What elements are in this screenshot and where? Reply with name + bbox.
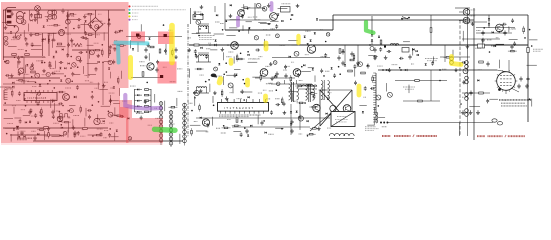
capacitor CsL104 [112, 60, 115, 65]
transistor QsL99 [72, 63, 76, 67]
diode DsL163 [53, 100, 55, 102]
wire v x445 [444, 45, 446, 62]
transistor QsC222 [194, 90, 199, 95]
resistor RsL222 [37, 129, 46, 131]
node nsC90 [226, 71, 228, 73]
node nsC30 [199, 28, 201, 30]
text label tsB20 [491, 45, 494, 47]
wire [10, 134, 12, 142]
resistor RsM29 [168, 106, 177, 108]
connector pin 8 colB [169, 142, 173, 146]
wire [120, 71, 122, 79]
wire [354, 67, 356, 76]
wire v x68 left [67, 10, 69, 57]
text label tsC178 [206, 131, 209, 133]
capacitor CsL95 [48, 61, 51, 66]
diode DsC27 [282, 20, 284, 22]
node nsC60 [325, 41, 327, 43]
text ladder label [136, 112, 144, 114]
resistor R3 zigzag [73, 44, 82, 47]
text label tsM14 [140, 65, 145, 67]
text label tsM5 [188, 37, 191, 39]
node nsL102 [102, 62, 104, 64]
capacitor CsL0 [11, 12, 14, 17]
ground G4 [20, 131, 24, 135]
wire [214, 6, 216, 12]
node nsC152 [317, 111, 319, 113]
highlight yellow Y6 [245, 80, 250, 85]
transistor QsC46 [276, 34, 280, 38]
capacitor CsL128 [71, 72, 74, 77]
text label tsB12 [487, 39, 492, 41]
diode DsC162 [307, 120, 309, 122]
resistor RsC173 [310, 128, 319, 129]
transistor QsC18 [196, 20, 201, 25]
resistor R15 on bus [194, 44, 199, 46]
transistor QsC5 [256, 3, 261, 8]
ground G11 [481, 38, 485, 42]
wire [242, 25, 244, 31]
diode DsL138 [60, 80, 62, 82]
capacitor CsC217 [333, 73, 336, 78]
capacitor CsL32 [89, 24, 92, 29]
inductor L1 [390, 44, 398, 45]
diode DsB26 [477, 79, 479, 81]
capacitor CsC96 [320, 69, 323, 74]
transistor Q19 [496, 24, 504, 32]
wire plug lead [15, 26, 18, 37]
wire bottom border left [33, 140, 183, 142]
node nsC4 [247, 8, 249, 10]
wire [229, 27, 237, 29]
transistor QsC112 [228, 83, 233, 88]
diode DsC135 [248, 96, 250, 98]
text label tsM33 [148, 124, 152, 126]
node nsL22 [109, 19, 111, 21]
connector pin 4 colB [169, 124, 173, 128]
wire y122 long [388, 122, 493, 124]
transistor QsA29 [376, 95, 381, 100]
text label tsC76 [259, 56, 263, 58]
diode DsC77 [289, 56, 291, 58]
text label tsL42 [67, 33, 71, 35]
diode DsL15 [46, 20, 48, 22]
wire [112, 44, 121, 46]
node nsM1 [163, 24, 165, 26]
resistor R8 [83, 128, 88, 130]
wire [529, 39, 537, 41]
highlight pink edge low [120, 107, 129, 143]
ground GsC20 [195, 54, 199, 58]
transistor Q4 [57, 116, 63, 122]
node nsC27 [301, 66, 303, 68]
transistor QsL78 [90, 50, 95, 55]
node nsL112 [70, 67, 72, 69]
capacitor CsB3 [511, 19, 514, 24]
diode DsC62 [200, 47, 202, 49]
text label tsB0 [467, 22, 470, 24]
diode D16 bus [386, 69, 388, 71]
wire v x431 low [430, 70, 432, 101]
capacitor CsL205 [120, 115, 125, 118]
diode DsL145 [12, 86, 14, 88]
capacitor CsA26 [370, 87, 375, 90]
resistor R30 [350, 59, 354, 61]
text label tsM34 [170, 123, 175, 125]
wire [257, 115, 259, 124]
transformer T6b [321, 80, 329, 100]
wire ladder left rail [134, 89, 136, 112]
diode DsL19 [85, 20, 87, 22]
text label tsC108 [299, 79, 303, 81]
capacitor C2 [66, 14, 69, 19]
connector pin 6 colC [183, 126, 187, 130]
transistor Q7 [202, 119, 209, 126]
node nsB7 [499, 31, 501, 33]
node nsL226 [47, 83, 49, 85]
text label tsC126 [269, 90, 273, 92]
resistor RsL79 [93, 49, 102, 51]
wire y27 r [476, 27, 515, 29]
optocoupler text CNY17 [5, 88, 13, 91]
wire [71, 39, 73, 47]
capacitor CsC70 [205, 54, 208, 59]
capacitor CsA23 [354, 81, 357, 86]
relay RL1 box [281, 4, 291, 12]
wire [28, 24, 30, 32]
node nsLb4 [59, 135, 61, 137]
diode DsC51 [215, 40, 217, 42]
legend cyan text [132, 9, 186, 11]
wire [214, 33, 224, 35]
diode DsC87 [303, 64, 305, 66]
text label tsC124 [258, 92, 263, 94]
node nsL231 [6, 133, 8, 135]
diode DsAb0 [342, 50, 344, 52]
resistor RsL213 [62, 121, 71, 123]
text label tsC36 [271, 28, 275, 30]
ground GsM7 [146, 43, 150, 47]
text label tsB24 [478, 69, 482, 71]
wire [433, 56, 435, 63]
text label tsL120 [24, 73, 29, 75]
resistor RsL187 [80, 105, 82, 113]
transistor Q17 [463, 9, 470, 16]
resistor RsC167 [222, 127, 231, 128]
wire v x24 left [23, 57, 25, 84]
ground G14 [461, 110, 465, 114]
text label tsC211 [216, 75, 222, 77]
ground GsL118 [10, 74, 14, 78]
node nsL88 [70, 56, 72, 58]
resistor RsC231 [297, 102, 306, 104]
wire [164, 101, 166, 111]
wire v x190 top [190, 8, 192, 24]
capacitor CsC216 [297, 73, 300, 78]
wire [25, 65, 27, 74]
text label tsL34 [7, 32, 13, 34]
capacitor CsL117 [5, 74, 10, 77]
wire [291, 93, 293, 102]
highlight patch A [131, 32, 145, 43]
node nsAb19 [399, 67, 401, 69]
capacitor CsB22 [513, 42, 516, 47]
text label tsC97 [325, 70, 329, 72]
capacitor CsL189 [87, 109, 92, 112]
node nsL72 [25, 50, 27, 52]
text label tsC55 [280, 44, 285, 46]
resistor R23 box [478, 44, 485, 48]
node nsAb16 [367, 65, 369, 67]
text block t3 [199, 36, 215, 40]
wire [84, 118, 86, 127]
wire [247, 61, 257, 63]
ground GsL14 [33, 17, 37, 21]
diode DsL133 [12, 82, 14, 84]
resistor RsL235 [48, 131, 50, 139]
text full bridge [499, 100, 531, 106]
text label tsL40 [48, 34, 53, 36]
node nsC93 [297, 70, 299, 72]
capacitor CsL61 [25, 42, 28, 47]
component in patch C [160, 75, 163, 78]
text label tsC133 [237, 98, 242, 100]
capacitor CsM8 [164, 49, 167, 54]
text label tsC50 [208, 42, 211, 44]
wire [509, 38, 518, 40]
diode DsC170 [250, 125, 252, 127]
resistor RsC88 [195, 68, 204, 70]
wire [243, 4, 245, 12]
transformer T8 vert [376, 112, 378, 123]
connector pin 4 colA [159, 116, 163, 120]
capacitor CsL170 [37, 101, 40, 106]
wire [88, 50, 90, 59]
transformer T6 top row [299, 85, 317, 89]
ground GsL216 [96, 54, 100, 58]
legend red text [132, 5, 158, 7]
capacitor C19 [144, 48, 147, 53]
node nsL184 [59, 111, 61, 113]
resistor R6 [31, 71, 36, 73]
wire h y57 [3, 56, 45, 58]
diode DsC58 [307, 43, 309, 45]
capacitor CsB27 [486, 99, 489, 104]
text label tsL22 [71, 15, 74, 17]
wire [114, 107, 116, 116]
wire [8, 45, 17, 47]
capacitor C14 [481, 31, 484, 36]
diode DsC34 [248, 27, 250, 29]
connector pin 6 colB [169, 133, 173, 137]
wire [189, 69, 191, 78]
wire [373, 107, 375, 114]
zener D3 [41, 61, 43, 63]
wire [270, 20, 279, 22]
connector pin 7 colA [159, 129, 163, 133]
node nsL190 [108, 111, 110, 113]
wire [53, 73, 64, 75]
highlight yellow Y5 [296, 36, 300, 43]
text label tsL180 [21, 109, 25, 111]
wire v x291 low [290, 104, 292, 135]
ground G8 [290, 129, 294, 133]
text label tsA218 [382, 126, 387, 128]
connector pin 3 colA [159, 111, 163, 115]
text label tsC140 [320, 98, 324, 100]
ground GsL196 [40, 113, 44, 117]
wire [260, 23, 271, 25]
diode D9 ladder [135, 100, 143, 102]
diode DsC129 [311, 92, 313, 94]
wire [27, 81, 35, 83]
highlight cyan v [116, 46, 121, 63]
text a01 [470, 10, 476, 16]
wire [87, 44, 94, 46]
svg-text:2.2(2K): 2.2(2K) [509, 29, 516, 31]
wire [368, 55, 375, 57]
wire [223, 52, 225, 60]
connector pin 7 colC [183, 130, 187, 134]
transistor QsB23 [463, 69, 468, 74]
diode DsL210 [37, 122, 39, 124]
ground G3 [51, 110, 55, 114]
transistor Q1 [59, 30, 65, 36]
resistor R20 [361, 72, 366, 74]
ground GsC174 [317, 127, 321, 131]
transistor QsL124 [46, 72, 50, 76]
connector pin 1 colC [183, 103, 187, 107]
text label tsL27 [11, 39, 16, 41]
text label tsL152 [111, 87, 115, 89]
capacitor CsC11 [199, 13, 204, 16]
text label tsL200 [73, 114, 79, 116]
ground G6 [73, 131, 77, 135]
wire y22 r [462, 21, 487, 23]
resistor R4 [12, 54, 17, 56]
text label tsC20 [220, 22, 224, 24]
wire [469, 105, 480, 107]
capacitor CsL56 [84, 37, 89, 40]
IC U2 pin labels [219, 115, 261, 117]
capacitor CsL18 [77, 18, 82, 21]
transistor QsL217 [6, 60, 9, 63]
text label tsC230 [294, 100, 298, 102]
crt socket U3 [497, 72, 516, 91]
resistor R17 [339, 49, 341, 54]
resistor R24 border [527, 48, 529, 53]
node nsC110 [323, 75, 325, 77]
diode DsL91 [4, 61, 6, 63]
highlight purple P3 [236, 18, 240, 26]
transistor Q12 [260, 69, 268, 77]
node nsC172 [281, 128, 283, 130]
connector P100 box [193, 12, 203, 20]
text label tsL162 [50, 98, 55, 100]
ground GsC65 [221, 47, 225, 51]
resistor R12 ladder [145, 106, 152, 108]
resistor RsL154 [11, 89, 13, 97]
text label tsC179 [221, 132, 226, 134]
transistor Q18 [463, 17, 470, 24]
node nsL68 [102, 44, 104, 46]
text label tsL232 [109, 92, 115, 94]
transformer T7 bumps [329, 133, 354, 138]
connector CN2 end [492, 119, 503, 125]
resistor RsB25 [508, 50, 517, 52]
diode DsL74 [55, 51, 57, 53]
diode DsL35 [10, 32, 12, 34]
capacitor CsC14 [241, 14, 244, 18]
transistor QsC32 [262, 7, 267, 12]
diode DsC151 [296, 111, 298, 113]
node nsC22 [240, 53, 242, 55]
capacitor C24 [298, 115, 301, 120]
transistor Q10 [238, 10, 245, 17]
wire [278, 7, 288, 9]
node n3 [384, 46, 386, 48]
diode DsC2 [230, 4, 232, 6]
crt socket pin blob [498, 88, 501, 91]
diode DsC17 [291, 14, 293, 16]
wire [233, 131, 241, 133]
text label tsM32 [155, 117, 159, 119]
diode DsC47 [304, 36, 306, 38]
diode DsL208 [25, 121, 27, 123]
wire [36, 94, 38, 103]
wire [489, 98, 498, 100]
connector pin 7 colB [169, 137, 173, 141]
component in patch B [164, 34, 167, 37]
text label tsL143 [104, 81, 108, 83]
resistor RsL241 [114, 115, 123, 117]
transistor QsAb15 [358, 62, 363, 67]
diode DsC16 [277, 14, 279, 16]
node nsB24 [489, 51, 491, 53]
wire h y78 [8, 77, 60, 79]
resistor RsC73 [236, 54, 238, 62]
text label tsC24 [255, 19, 261, 21]
resistor R27 [150, 46, 154, 48]
resistor RsC168 [232, 125, 241, 127]
text label tsL157 [31, 92, 37, 94]
highlight pink fade [1, 143, 163, 145]
wire [97, 118, 106, 120]
capacitor C10 [290, 120, 293, 125]
transistor Q2 [18, 68, 24, 74]
transistor Q8 [231, 42, 239, 50]
ground GsC0 [200, 5, 204, 9]
ground GsL226 [72, 126, 76, 130]
resistor R31 [415, 80, 420, 82]
text label tsL195 [31, 115, 36, 117]
ground GsA22 [388, 68, 392, 72]
wire [403, 41, 410, 43]
capacitor C12 [350, 52, 353, 57]
resistor RsA24 [372, 75, 374, 83]
text label tsM11 [139, 61, 144, 63]
resistor RsC74 [236, 58, 245, 60]
wire [31, 49, 42, 51]
diode D20 [488, 18, 490, 20]
wire [314, 75, 316, 81]
transistor QsM3 [138, 35, 141, 38]
node nsL175 [92, 104, 94, 106]
text label tsC120 [230, 92, 234, 94]
wire [308, 85, 317, 87]
wire v x300 low [299, 104, 301, 130]
text label tsL130 [85, 74, 90, 76]
